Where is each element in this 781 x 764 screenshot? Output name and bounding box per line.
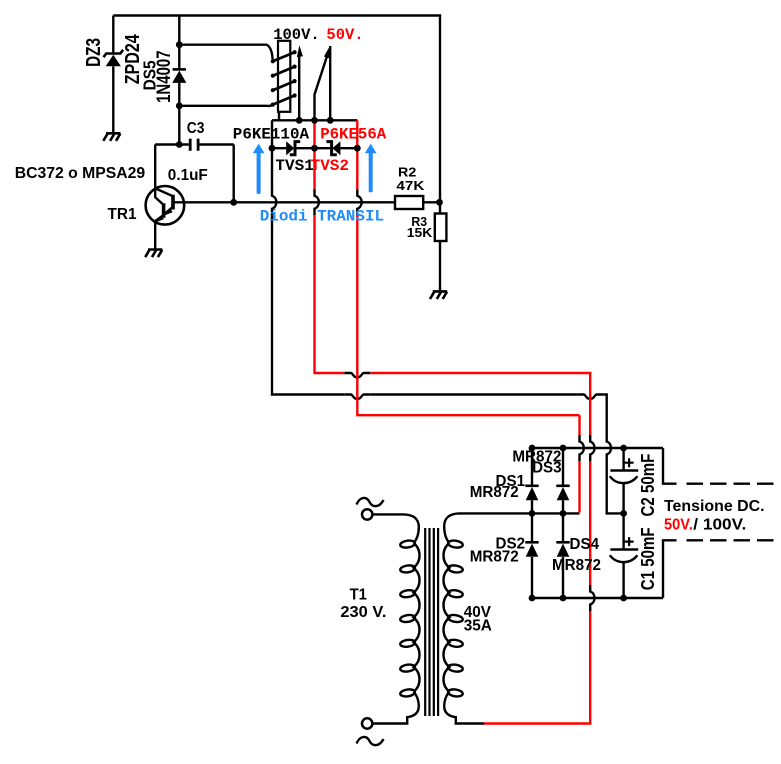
- svg-text:TVS1: TVS1: [275, 157, 313, 175]
- svg-text:C1 50mF: C1 50mF: [638, 527, 658, 590]
- svg-text:T1: T1: [350, 587, 367, 604]
- svg-text:DS3: DS3: [532, 460, 562, 477]
- svg-text:1N4007: 1N4007: [154, 50, 175, 103]
- svg-text:P6KE110A: P6KE110A: [233, 126, 310, 144]
- svg-text:47K: 47K: [396, 178, 425, 193]
- svg-text:15K: 15K: [407, 225, 433, 240]
- svg-text:MR872: MR872: [470, 484, 519, 501]
- svg-text:Diodi TRANSIL: Diodi TRANSIL: [260, 207, 384, 225]
- svg-text:100V.: 100V.: [273, 26, 320, 44]
- svg-text:TR1: TR1: [108, 206, 137, 223]
- svg-text:50V.: 50V.: [326, 26, 363, 44]
- svg-text:/ 100V.: / 100V.: [693, 517, 746, 534]
- svg-text:35A: 35A: [464, 618, 493, 635]
- svg-text:50V.: 50V.: [664, 517, 693, 534]
- svg-text:BC372 o MPSA29: BC372 o MPSA29: [15, 165, 146, 182]
- svg-text:230 V.: 230 V.: [340, 604, 386, 621]
- svg-text:TVS2: TVS2: [311, 157, 349, 175]
- svg-text:P6KE56A: P6KE56A: [320, 126, 386, 144]
- svg-text:DZ3: DZ3: [83, 38, 105, 67]
- svg-text:C2 50mF: C2 50mF: [638, 454, 658, 517]
- svg-text:DS4: DS4: [570, 536, 600, 553]
- svg-text:Tensione DC.: Tensione DC.: [664, 498, 765, 515]
- svg-text:0.1uF: 0.1uF: [168, 167, 208, 184]
- svg-text:C3: C3: [187, 120, 205, 137]
- svg-text:MR872: MR872: [470, 549, 519, 566]
- svg-text:MR872: MR872: [552, 557, 601, 574]
